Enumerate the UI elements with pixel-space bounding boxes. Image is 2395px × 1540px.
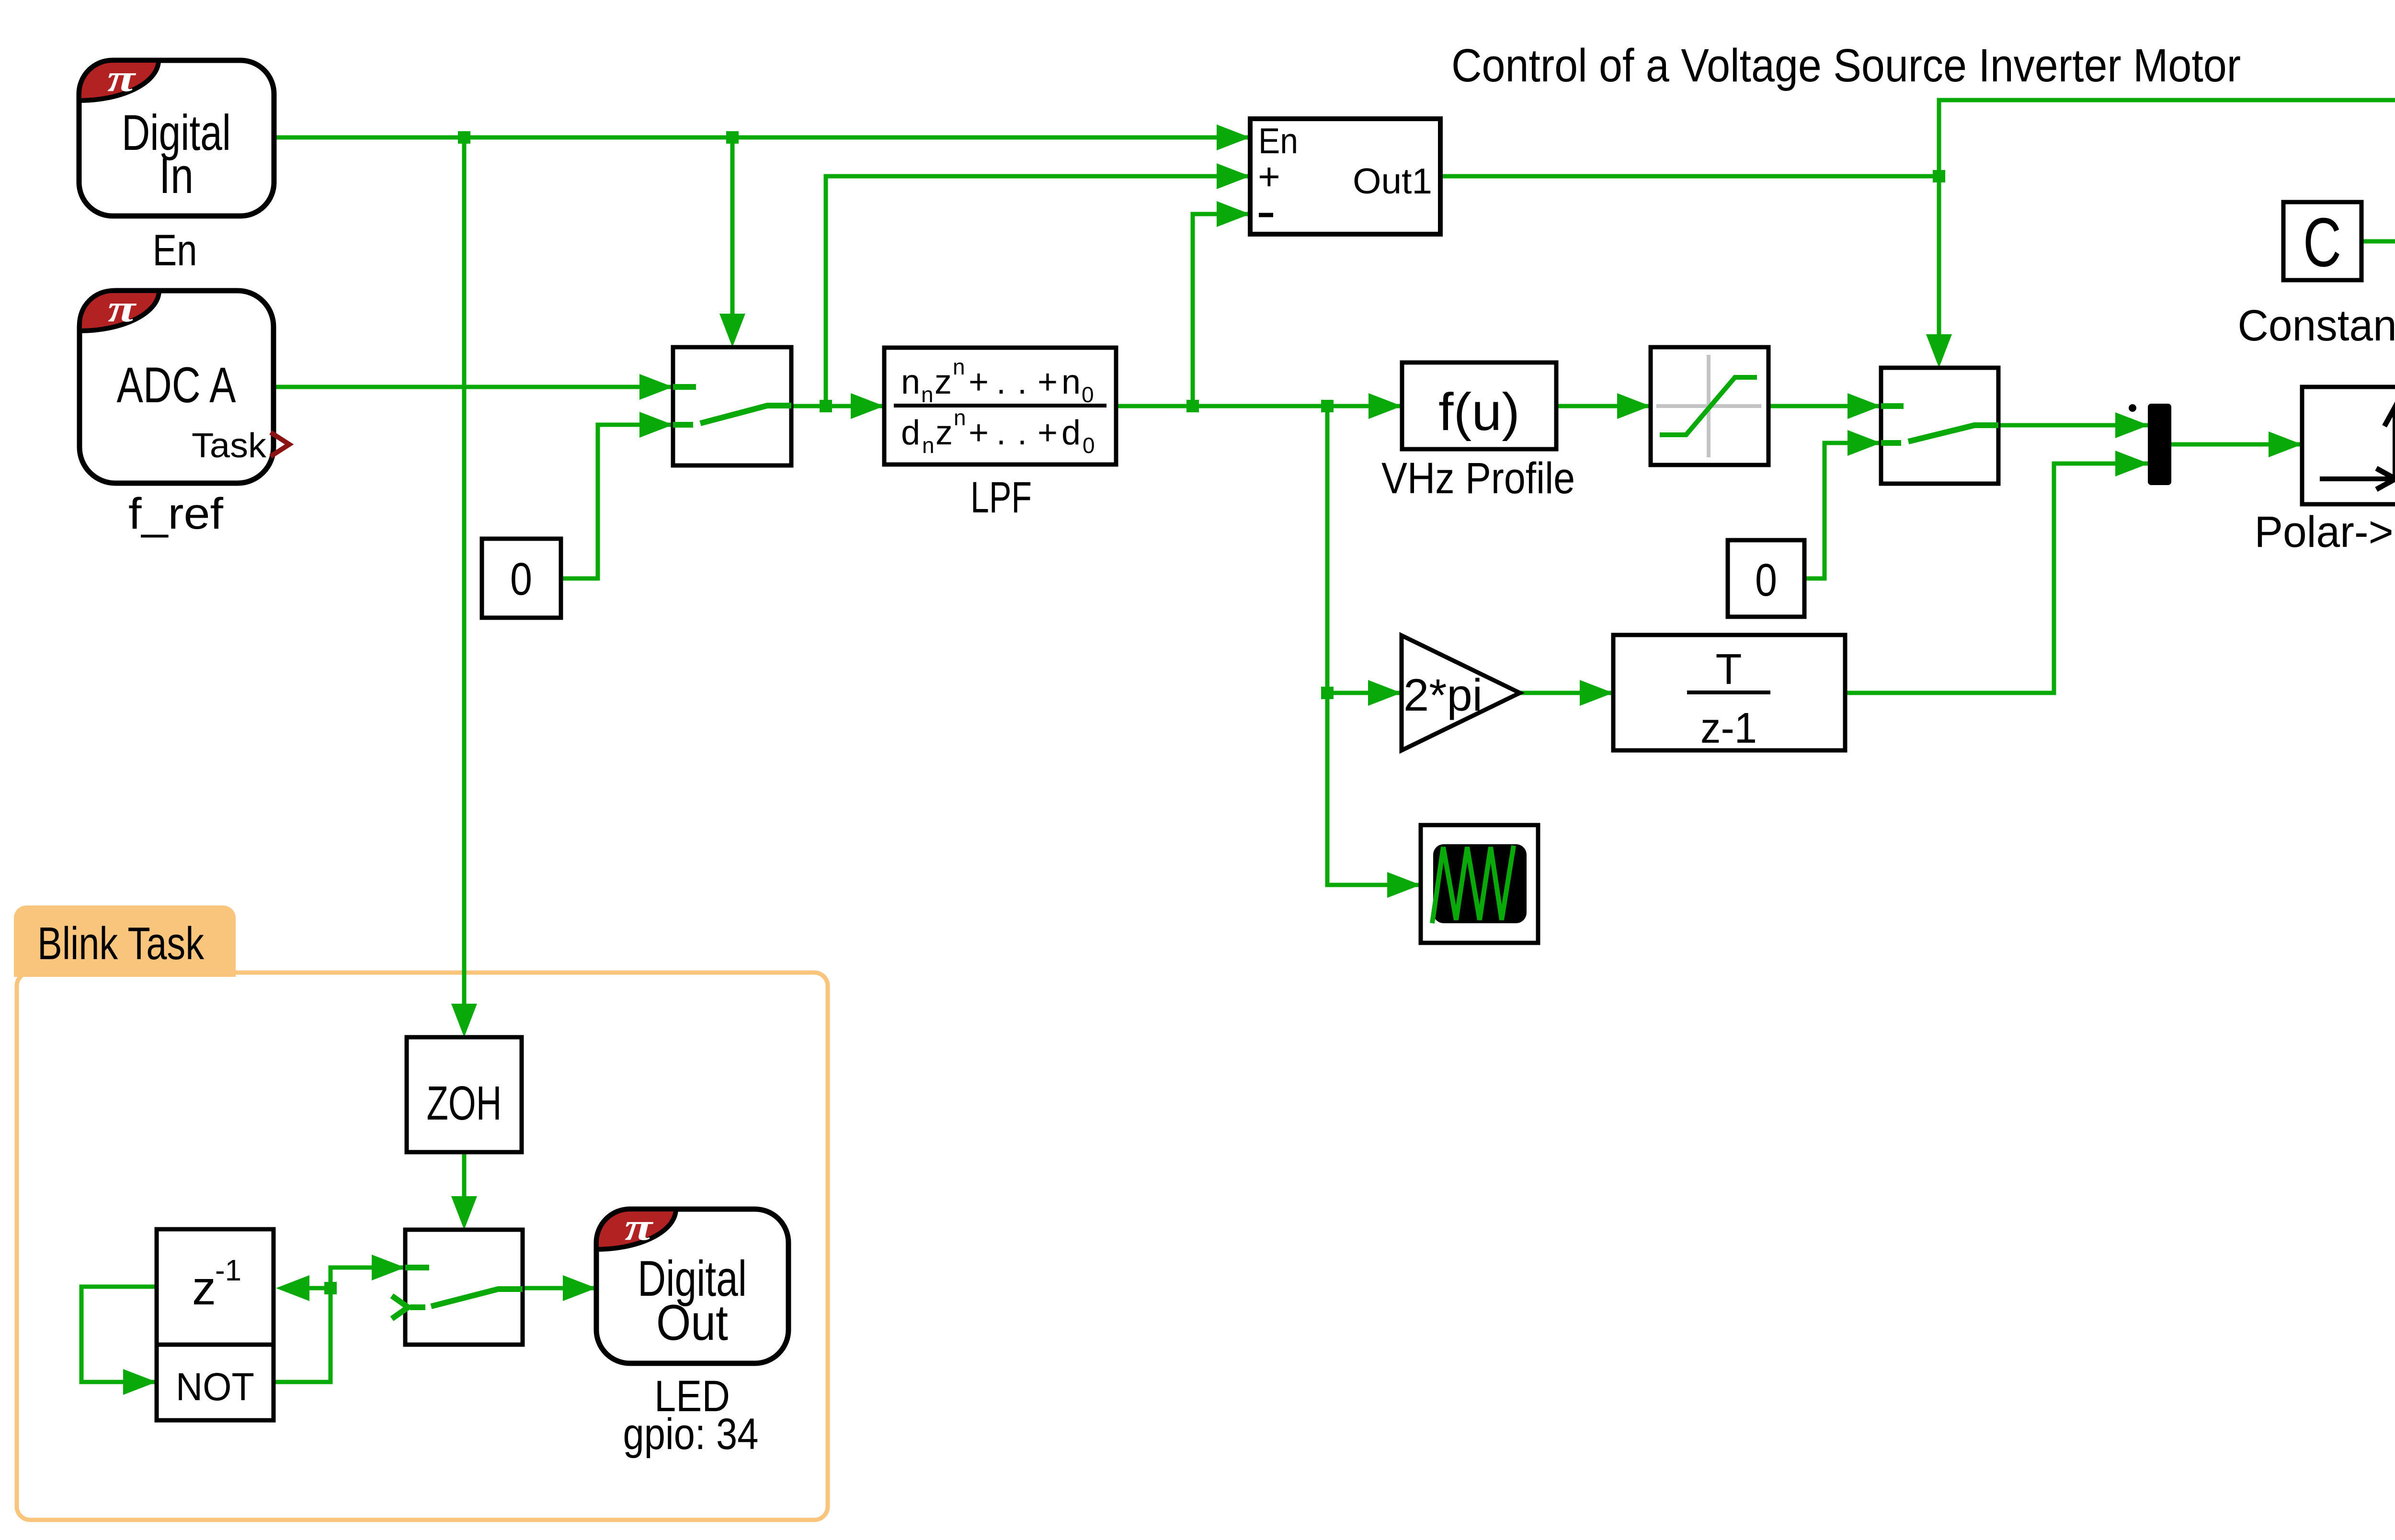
wire arrowhead into T/(z-1) <box>1580 680 1613 706</box>
wire arrowhead into Digital Out LED <box>563 1275 596 1301</box>
Saturation green curve <box>1660 377 1757 435</box>
wire En net: branch down to Switch1 ctrl <box>730 137 735 319</box>
svg-text:Out: Out <box>656 1295 728 1351</box>
wire arrowhead into Switch3 ctrl <box>451 1196 477 1230</box>
svg-text:+: + <box>1258 155 1280 198</box>
Switch3 in1 stub <box>405 1265 429 1270</box>
wire arrowhead into z-1 input <box>276 1275 309 1301</box>
wire saturation to Switch2 in1 <box>1768 404 1881 408</box>
svg-text:0: 0 <box>510 554 532 605</box>
wire arrowhead into Switch1 in1 <box>639 374 673 400</box>
block Digital In (En) <box>79 60 274 216</box>
wire ZOH out to Switch3 ctrl <box>462 1152 467 1203</box>
wire arrowhead into Switch1 in2 <box>639 412 673 438</box>
junction J3 Switch1 out split <box>820 400 832 412</box>
wire arrowhead into LPF <box>851 393 884 419</box>
Switch1 in2 stub <box>673 422 693 428</box>
Saturation gray y-axis <box>1707 355 1711 457</box>
wire arrowhead into Mux in1 <box>2115 412 2149 438</box>
svg-text:Out1: Out1 <box>1353 161 1432 201</box>
wire arrowhead into Mux in2 <box>2115 451 2149 476</box>
wire T/(z-1) out to Mux in2 <box>1845 464 2149 693</box>
T fraction bar <box>1687 691 1770 694</box>
Switch3 open contact chevron <box>392 1296 408 1319</box>
wire arrowhead into 2*pi gain <box>1368 680 1402 706</box>
svg-text:En: En <box>153 226 197 275</box>
svg-text:f(u): f(u) <box>1438 383 1520 442</box>
wire arrowhead into NOT <box>123 1369 157 1395</box>
block Constant 0 left <box>482 539 561 618</box>
block ZOH <box>407 1037 522 1152</box>
junction J6 gain branch split <box>1321 687 1334 699</box>
svg-text:NOT: NOT <box>176 1365 254 1409</box>
svg-text:Task: Task <box>192 427 267 465</box>
wire branch to 2*pi gain <box>1327 691 1402 695</box>
block Mux <box>2148 404 2171 485</box>
wire arrowhead into Switch2 in2 <box>1848 430 1881 456</box>
wire arrowhead into Out1 minus <box>1217 201 1250 227</box>
wire zero1 net: 0 to Switch1 in2 <box>561 425 673 578</box>
block LPF <box>884 348 1116 464</box>
block z-1 NOT <box>157 1229 274 1420</box>
wire feedback branch into z-1 input <box>304 1286 331 1291</box>
Polar-rect icon right arrowhead <box>2376 468 2395 489</box>
Polar-rect icon vertical axis <box>2393 411 2395 481</box>
wire En net: branch down to ZOH <box>462 137 467 1010</box>
svg-text:π: π <box>625 1206 654 1248</box>
wire Switch1 out to LPF <box>791 404 884 408</box>
block Constant 0 right <box>1728 540 1804 617</box>
TI badge Digital In <box>79 60 159 101</box>
svg-text:f_ref: f_ref <box>128 489 223 538</box>
svg-text:Polar->rect: Polar->rect <box>2255 508 2395 556</box>
Polar-rect icon up arrowhead <box>2384 407 2395 426</box>
junction J5 LPF out split down <box>1321 400 1334 412</box>
block Switch2 <box>1881 368 1998 484</box>
block C constant <box>2283 202 2361 280</box>
svg-text:ADC A: ADC A <box>117 357 236 413</box>
wire Out1 out to junction <box>1440 174 1939 179</box>
block Switch1 <box>673 347 791 465</box>
block Scope <box>1421 825 1538 943</box>
wire z-1 out feedback loop to NOT in <box>81 1287 157 1382</box>
svg-text:Control of a Voltage Source In: Control of a Voltage Source Inverter Mot… <box>1451 39 2241 91</box>
block T over z-1 <box>1613 635 1845 750</box>
wire Out1 out branch down to Switch2 ctrl <box>1937 176 1941 340</box>
junction J8 NOT out split to z-1 <box>324 1282 337 1294</box>
wire Mux out to Polar-rect <box>2171 442 2302 447</box>
svg-text:LPF: LPF <box>970 473 1032 522</box>
block Saturation <box>1651 347 1768 465</box>
Switch3 in2 stub <box>410 1304 425 1310</box>
svg-text:0: 0 <box>1755 555 1777 606</box>
Blink Task group frame <box>17 973 828 1520</box>
svg-text:z-1: z-1 <box>1700 704 1757 752</box>
wire arrowhead into Switch1 ctrl <box>719 314 745 347</box>
junction J7 Out1 out split <box>1933 170 1945 182</box>
svg-text:In: In <box>159 148 194 204</box>
Out1 minus port label <box>1259 213 1273 217</box>
svg-text:T: T <box>1716 645 1742 693</box>
LPF fraction bar <box>894 404 1106 408</box>
wire arrowhead into Out1 En <box>1217 125 1250 150</box>
z-1 NOT divider <box>157 1343 274 1347</box>
wire arrowhead into Polar-rect <box>2269 431 2302 457</box>
junction J4 LPF out split to minus <box>1186 400 1199 412</box>
Switch2 lever <box>1908 425 1998 442</box>
svg-text:Blink Task: Blink Task <box>37 918 205 969</box>
svg-text:2*pi: 2*pi <box>1403 670 1483 721</box>
ADC A Task event port <box>271 432 289 456</box>
wire Switch2 out to Mux in1 <box>1998 423 2149 428</box>
svg-text:π: π <box>108 288 137 330</box>
wire LPF out branch to Out1 minus <box>1193 214 1250 406</box>
block Digital Out LED <box>596 1209 788 1363</box>
Switch1 lever <box>700 406 791 423</box>
block f(u) <box>1402 362 1556 449</box>
wire gain out to T/(z-1) <box>1520 691 1613 695</box>
block Out1 sum <box>1250 119 1440 234</box>
block Switch3 <box>405 1230 523 1345</box>
svg-text:C: C <box>2303 204 2341 281</box>
wire C out to SVPWM Vdc <box>2361 241 2395 330</box>
block ADC A (f_ref) <box>80 291 274 483</box>
TI badge Digital Out LED <box>596 1209 676 1249</box>
wire f_ref net: ADC A to Switch1 in1 <box>274 385 673 389</box>
wire arrowhead into ZOH <box>451 1004 477 1037</box>
Switch2 in2 stub <box>1881 440 1901 446</box>
wire arrowhead into saturation <box>1617 393 1651 419</box>
svg-text:ZOH: ZOH <box>427 1076 502 1130</box>
Switch3 lever <box>431 1289 523 1306</box>
wire arrowhead into Switch2 ctrl <box>1926 334 1952 368</box>
Switch1 in1 stub <box>673 384 696 390</box>
wire NOT out up to Switch3 in1 <box>274 1268 405 1382</box>
Scope screen <box>1433 844 1527 923</box>
junction J1 En net split to ZOH <box>458 131 470 144</box>
junction J2 En net split to Switch1 ctrl <box>726 131 739 144</box>
wire arrowhead into Switch3 in1 <box>372 1255 405 1280</box>
Saturation gray x-axis <box>1656 404 1761 408</box>
wire arrowhead into Out1 plus <box>1217 163 1250 189</box>
wire arrowhead into Switch2 in1 <box>1848 393 1881 419</box>
Mux name dot <box>2129 404 2136 412</box>
TI badge ADC A <box>80 291 159 331</box>
wire zero2 net: 0 to Switch2 in2 <box>1804 443 1881 578</box>
svg-text:Constant: Constant <box>2238 301 2395 350</box>
Scope trace <box>1432 846 1514 923</box>
svg-text:gpio: 34: gpio: 34 <box>623 1410 759 1459</box>
block Gain 2*pi <box>1402 635 1520 750</box>
Polar-rect icon horizontal axis <box>2320 476 2395 481</box>
wire arrowhead into Scope <box>1387 872 1421 898</box>
svg-text:VHz Profile: VHz Profile <box>1381 454 1575 503</box>
wire LPF out branch down to gain and scope <box>1327 406 1421 885</box>
svg-text:π: π <box>107 57 137 100</box>
wire f(u) to saturation <box>1556 404 1651 408</box>
block Polar to rect <box>2302 387 2395 504</box>
Switch2 in1 stub <box>1881 403 1904 409</box>
wire Out1 out branch up to Digital Out En_Inv <box>1939 100 2395 176</box>
wire Switch3 out to Digital Out LED <box>523 1286 596 1291</box>
wire Switch1 out branch to Out1 plus <box>826 176 1250 406</box>
wire En net: Digital In to Out1 En <box>274 136 1250 140</box>
wire LPF out to f(u) <box>1116 404 1402 408</box>
Blink Task group tab <box>14 906 236 977</box>
wire arrowhead into f(u) <box>1369 393 1402 419</box>
